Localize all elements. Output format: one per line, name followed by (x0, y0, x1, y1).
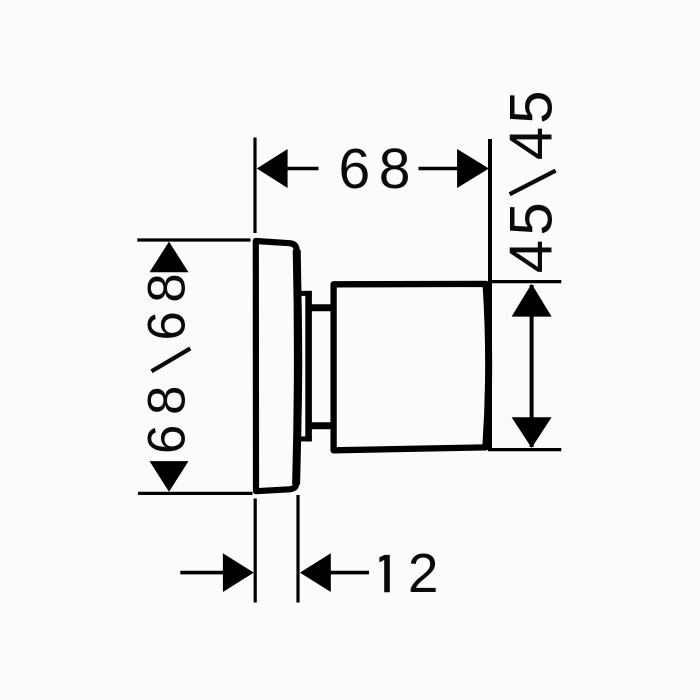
svg-text:4: 4 (498, 240, 565, 273)
collar sleeve bottom cap (297, 436, 312, 441)
extension line top (137, 238, 250, 241)
arrowhead right (457, 149, 489, 188)
dimension tail left (180, 571, 223, 575)
arrowhead pointing left (300, 553, 331, 592)
dimension tail right (419, 167, 458, 171)
escutcheon plate (wall rosette, side view) (256, 241, 299, 491)
extension line top (491, 280, 561, 283)
arrowhead down (512, 417, 552, 448)
dimension tail left (287, 167, 319, 171)
svg-text:6: 6 (138, 311, 197, 340)
valve neck top line (306, 304, 334, 311)
dimension 12 (bottom horizontal) (180, 495, 438, 604)
arrowhead up (150, 242, 189, 273)
svg-text:5: 5 (498, 202, 565, 235)
collar sleeve right edge (305, 291, 312, 442)
extension line bottom (488, 448, 561, 451)
arrowhead up (512, 284, 552, 317)
extension line left (253, 138, 256, 234)
label 12 (379, 555, 389, 592)
svg-text:8: 8 (138, 386, 197, 415)
dimension line (530, 285, 534, 447)
extension line left (254, 499, 257, 603)
extension line right (488, 139, 492, 449)
dimension 68 (top horizontal) (255, 137, 490, 449)
arrowhead pointing right (223, 553, 254, 592)
extension line right (296, 495, 299, 603)
dimension tail right (330, 571, 369, 575)
handle (knob, side view) (334, 284, 489, 450)
collar sleeve top cap (297, 291, 312, 296)
svg-text:4: 4 (498, 127, 565, 160)
svg-text:2: 2 (408, 542, 439, 604)
svg-text:8: 8 (138, 273, 197, 302)
svg-text:6: 6 (339, 137, 371, 201)
dimension 45 / 45 (right vertical) (488, 91, 565, 450)
valve neck bottom line (306, 422, 334, 429)
svg-text:5: 5 (498, 91, 565, 124)
svg-text:8: 8 (379, 137, 411, 201)
arrowhead left (257, 149, 288, 188)
arrowhead down (150, 461, 189, 492)
extension line bottom (138, 492, 253, 495)
dimension 68 / 68 (left vertical) (137, 240, 252, 493)
svg-text:6: 6 (138, 425, 197, 454)
